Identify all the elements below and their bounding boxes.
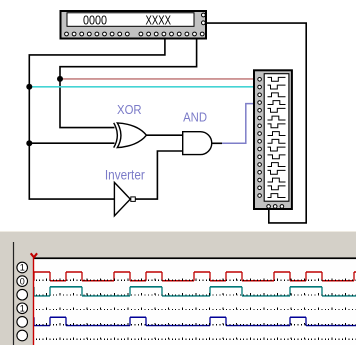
word generator xyxy=(61,11,207,39)
wire inverter output up to AND lower input xyxy=(135,151,182,199)
svg-text:0: 0 xyxy=(20,276,25,286)
svg-text:AND: AND xyxy=(183,110,207,125)
channel 4 trace (blue) xyxy=(50,316,306,318)
waveform display area xyxy=(34,259,356,345)
channel 4 grid dots xyxy=(36,324,356,326)
channel 5 grid dots (inactive) xyxy=(36,338,356,340)
channel 2 grid dots xyxy=(36,294,356,296)
XOR gate xyxy=(114,123,147,148)
wire clock from generator right terminal to analyzer bottom terminal xyxy=(207,23,307,223)
junction node on cyan wire xyxy=(26,84,32,90)
wire AND output stub xyxy=(212,142,223,144)
channel value circles xyxy=(17,262,28,273)
wire cyan to analyzer channel 2 xyxy=(29,86,257,88)
junction node XOR lower input xyxy=(26,140,32,146)
wire XOR output to AND upper input xyxy=(146,134,182,136)
svg-text:XOR: XOR xyxy=(117,102,142,117)
svg-text:0000: 0000 xyxy=(83,12,107,27)
svg-text:1: 1 xyxy=(20,304,25,314)
channel 2 trace (teal) xyxy=(50,286,322,288)
wire generator bit0 down-left-down to XOR lower / inverter input xyxy=(29,39,165,199)
channel 1 grid dots xyxy=(36,279,356,281)
logic analyzer xyxy=(254,70,292,209)
svg-text:1: 1 xyxy=(20,263,25,273)
AND gate xyxy=(183,132,212,155)
inverter xyxy=(114,182,135,216)
wire XOR lower input from junction xyxy=(29,142,114,144)
svg-text:Inverter: Inverter xyxy=(105,166,145,182)
waveform display top border xyxy=(33,257,356,259)
junction node on red wire xyxy=(57,76,63,82)
panel divider line xyxy=(13,242,15,345)
channel 3 grid dots (inactive) xyxy=(36,309,356,311)
wire generator bit1 down-left-down to XOR upper input xyxy=(60,39,197,128)
channel 1 trace (red) xyxy=(34,271,356,273)
time cursor xyxy=(33,258,35,345)
wire red to analyzer channel 1 xyxy=(60,78,257,80)
svg-text:XXXX: XXXX xyxy=(146,12,172,27)
waveform panel background xyxy=(0,231,356,345)
wire lavender AND output to analyzer channel 4 xyxy=(222,104,257,144)
